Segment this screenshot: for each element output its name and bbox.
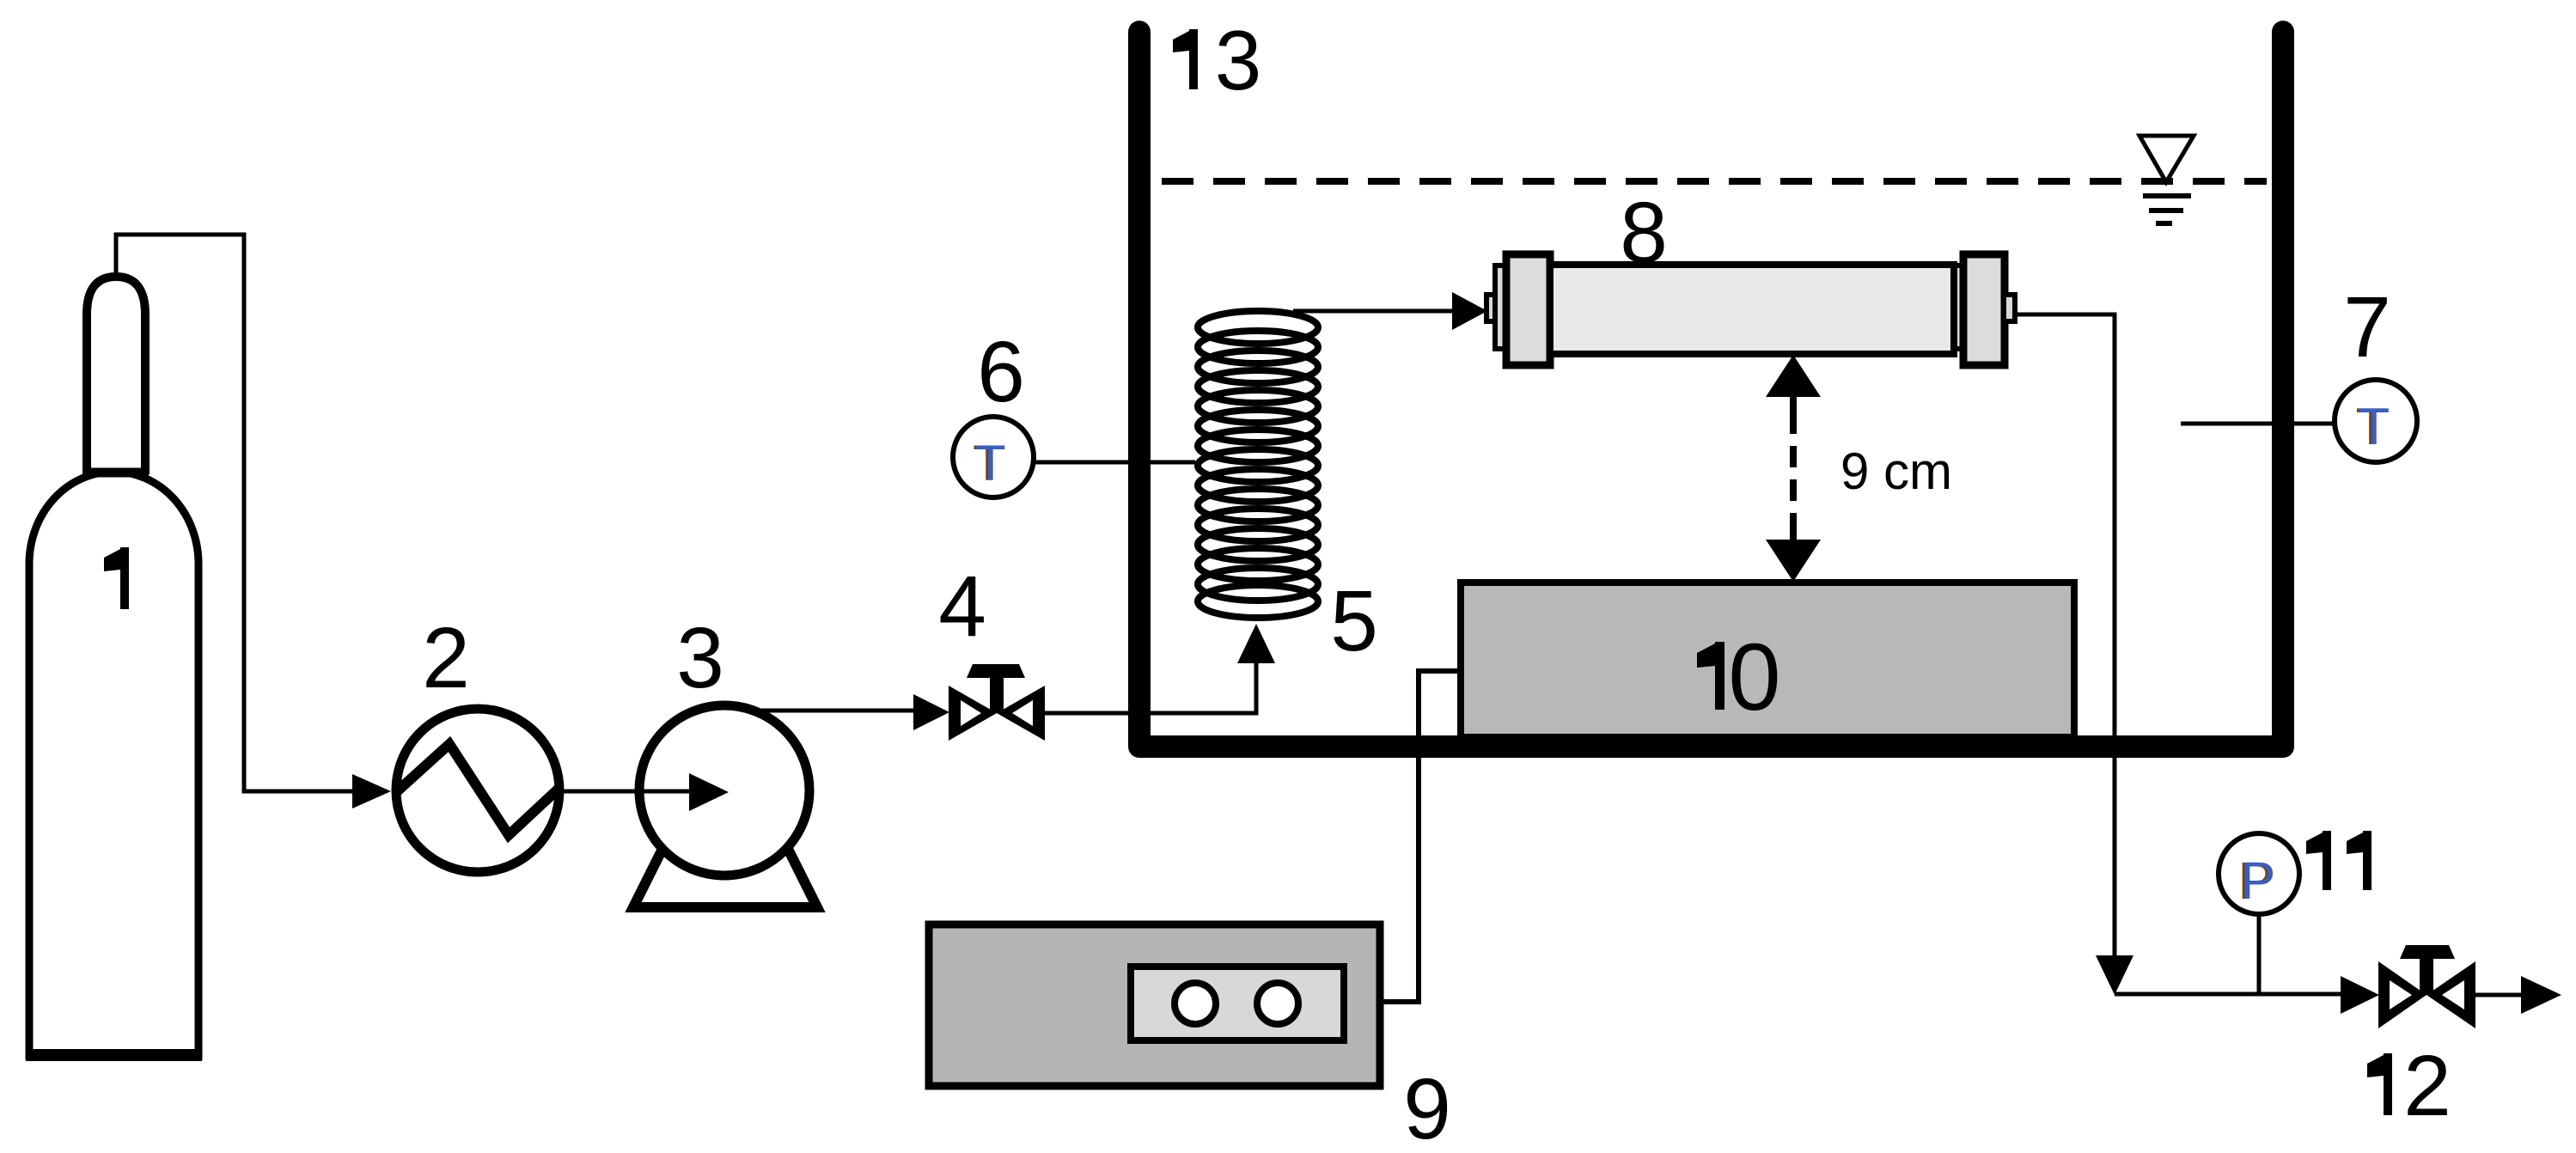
gas cylinder 1: [26, 277, 202, 1056]
heat exchanger 2: [395, 709, 559, 872]
arrow into pump 3: [689, 773, 729, 811]
wire valve 4 to coil riser: [1045, 663, 1256, 713]
temperature sensor 7 wire: [2181, 422, 2335, 426]
label 11: [2323, 831, 2331, 890]
label 13: [1189, 29, 1198, 89]
svg-text:T: T: [975, 436, 1005, 491]
valve 4: [949, 664, 1045, 741]
wire pump 3 to valve 4: [730, 709, 915, 713]
arrow into valve 12: [2341, 976, 2379, 1014]
arrow into valve 4: [913, 694, 949, 730]
outlet arrow: [2521, 976, 2561, 1014]
pressure gauge 11: [2219, 833, 2299, 914]
arrow up into coil 5: [1237, 624, 1275, 663]
svg-text:2: 2: [2403, 1038, 2451, 1134]
svg-text:3: 3: [676, 610, 724, 706]
outlet wire from valve 12: [2475, 993, 2526, 997]
svg-text:9 cm: 9 cm: [1840, 442, 1952, 500]
coil 5: [1198, 311, 1318, 618]
svg-text:4: 4: [938, 558, 986, 655]
svg-text:8: 8: [1620, 185, 1668, 281]
wire heat exchanger 2 to pump 3: [561, 790, 692, 794]
drain line to valve 12: [2115, 992, 2342, 997]
svg-text:T: T: [2359, 398, 2390, 455]
label 1: [120, 547, 129, 609]
pump 3: [633, 705, 817, 907]
stirrer block 10: [1461, 583, 2074, 737]
water level dashed line: [1162, 178, 2267, 185]
temperature sensor 6: [953, 417, 1034, 497]
wire module 8 to drain: [2014, 314, 2115, 955]
wire coil 5 to membrane module 8: [1293, 309, 1454, 314]
label 10: [1715, 642, 1724, 710]
wire from cylinder 1 to heat exchanger 2: [116, 235, 354, 791]
arrow down at drain corner: [2096, 955, 2133, 995]
water bath 13: [1139, 32, 2283, 747]
svg-text:2: 2: [422, 610, 470, 706]
arrow into module 8: [1452, 292, 1487, 330]
svg-text:0: 0: [1728, 625, 1780, 730]
label 12: [2384, 1053, 2392, 1115]
svg-text:P: P: [2241, 851, 2276, 910]
svg-text:5: 5: [1330, 573, 1378, 669]
dimension arrow 9 cm: [1766, 355, 1821, 582]
water level symbol: [2140, 136, 2194, 223]
valve 12: [2378, 945, 2475, 1028]
svg-text:6: 6: [977, 324, 1025, 420]
membrane module 8: [1486, 254, 2015, 365]
svg-text:7: 7: [2343, 279, 2391, 375]
wire control box 9 to block 10: [1380, 671, 1458, 1002]
control box 9: [929, 924, 1380, 1086]
pressure gauge 11 stem: [2257, 913, 2262, 994]
svg-text:9: 9: [1403, 1061, 1451, 1153]
temperature sensor 6 wire: [1034, 461, 1195, 465]
svg-text:3: 3: [1215, 13, 1262, 107]
temperature sensor 7: [2335, 380, 2417, 462]
arrow into heat exchanger 2: [352, 774, 391, 808]
